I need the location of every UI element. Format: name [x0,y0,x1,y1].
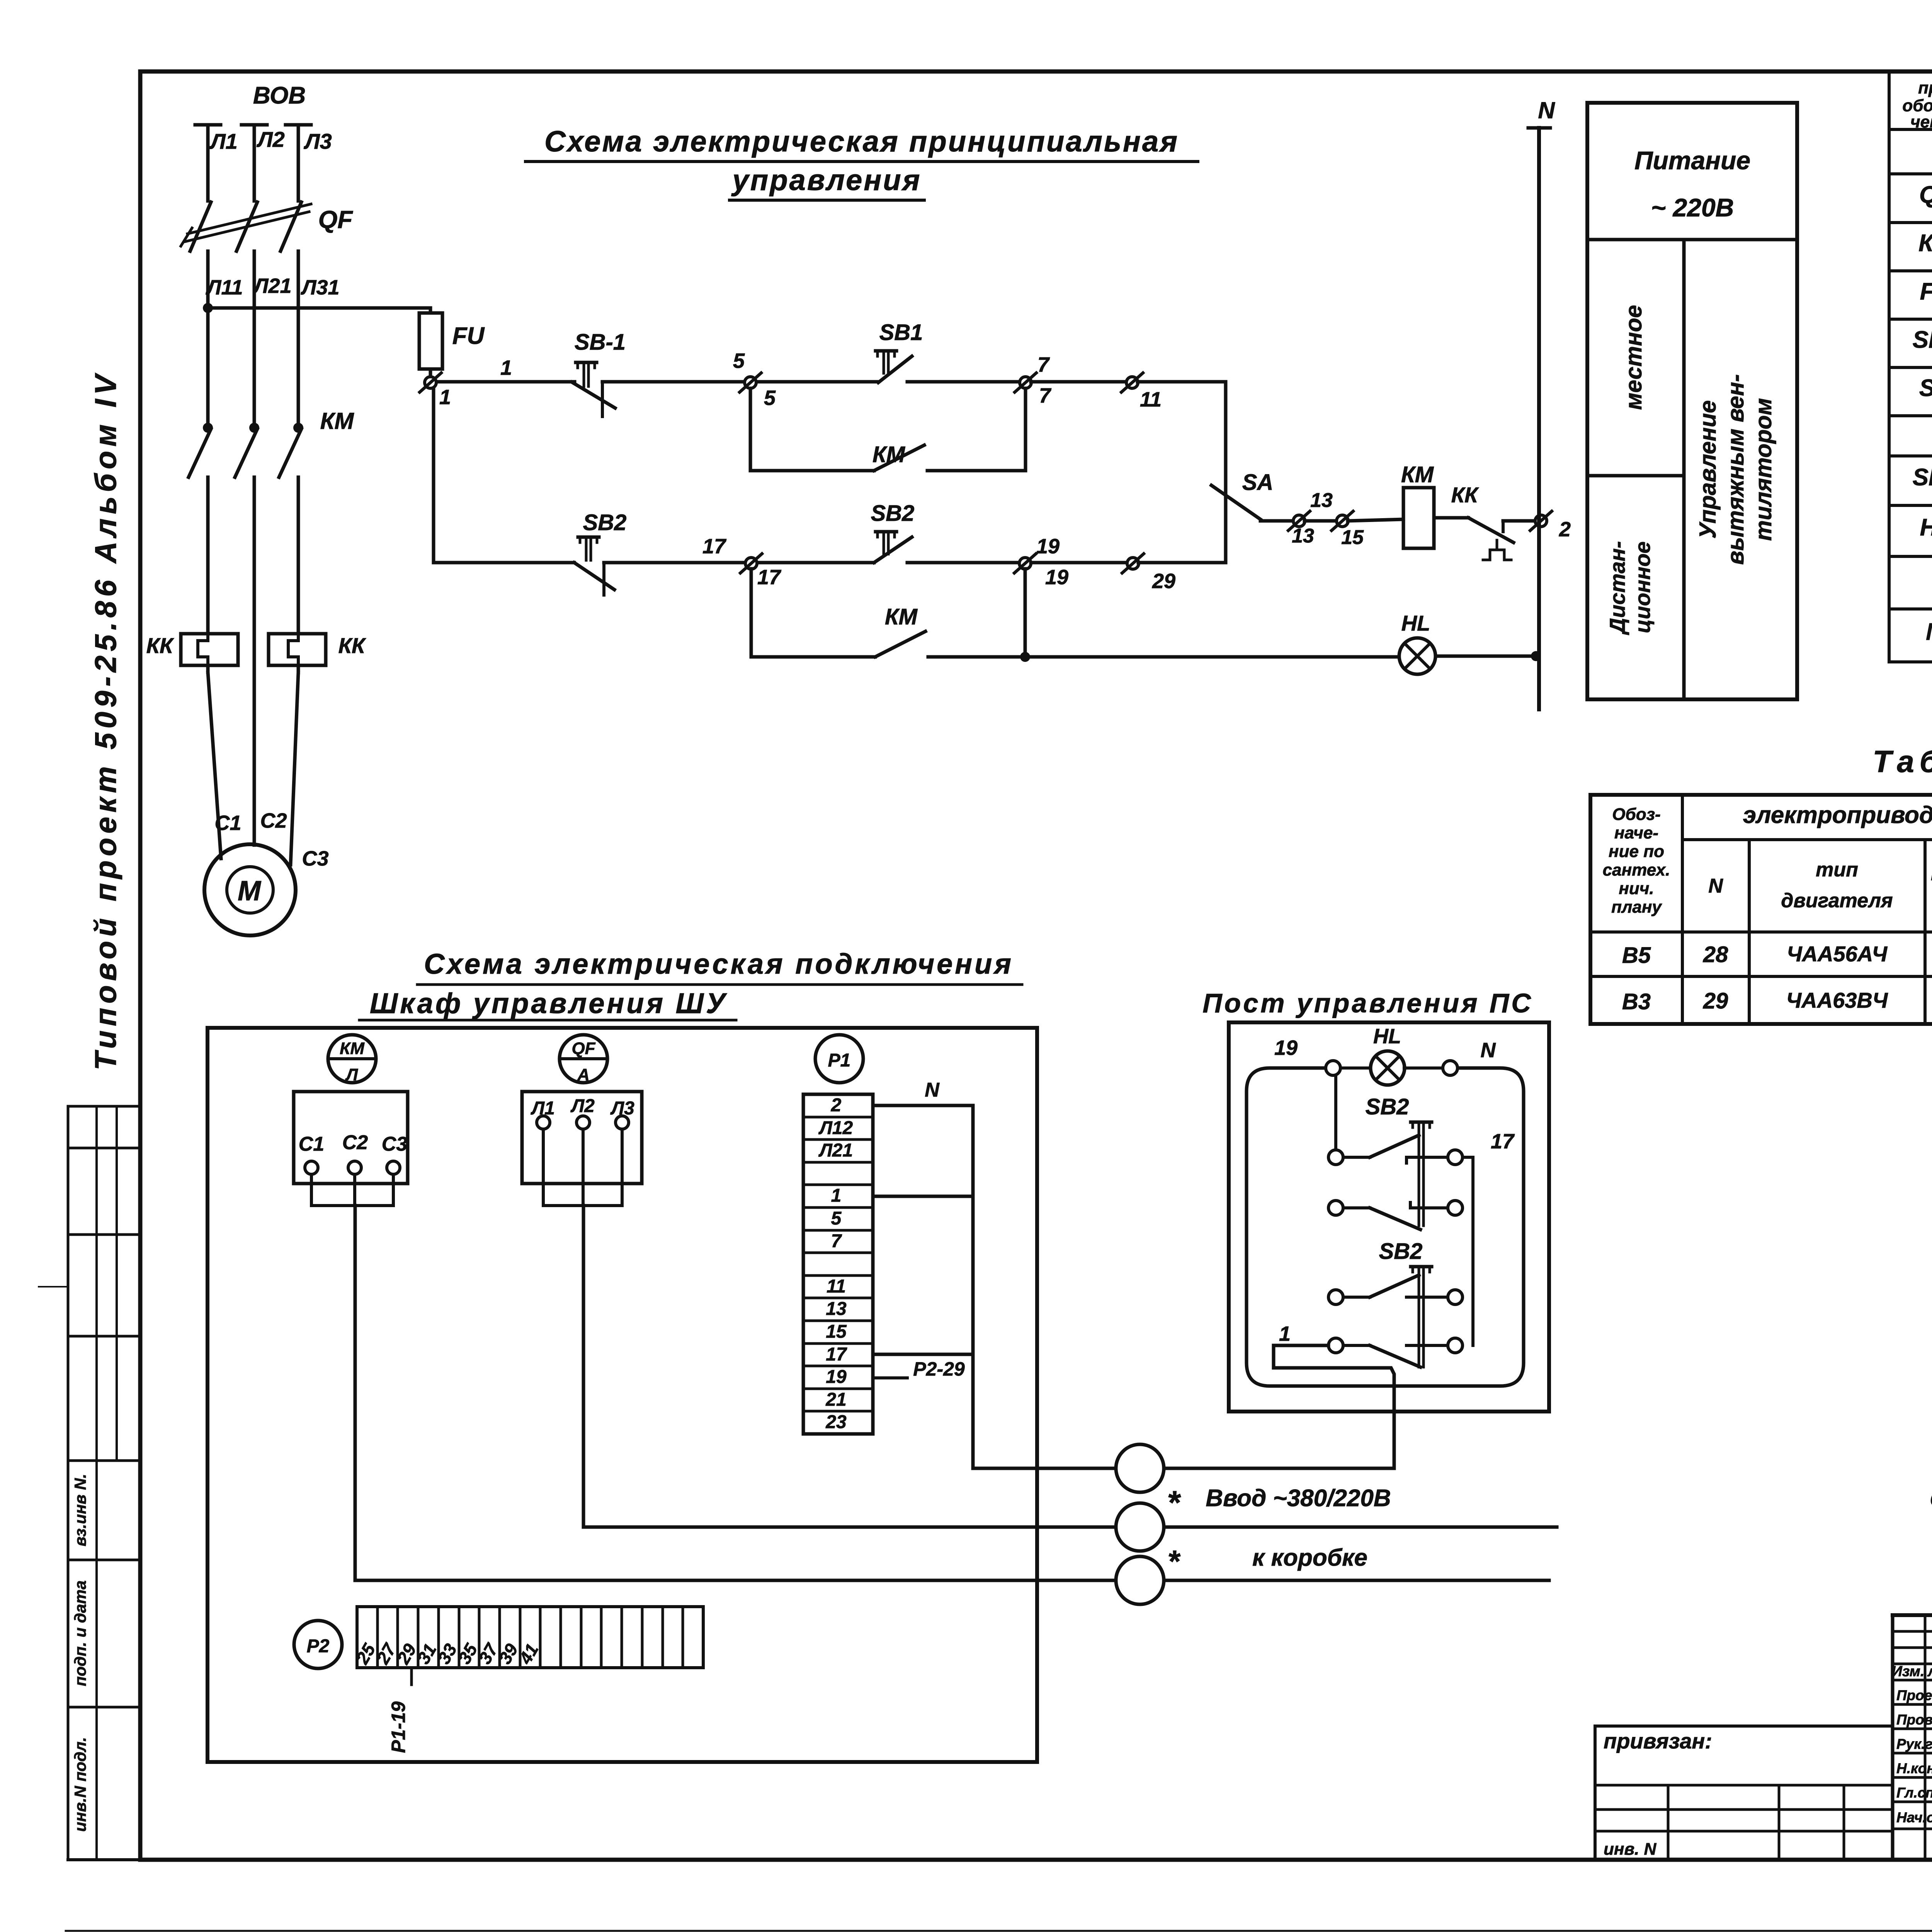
svg-text:Ввод ~380/220В: Ввод ~380/220В [1206,1485,1391,1512]
svg-text:1: 1 [1279,1322,1291,1345]
svg-text:17: 17 [1491,1130,1515,1153]
svg-text:Р1: Р1 [828,1050,851,1071]
svg-text:*: * [1168,1485,1181,1521]
svg-text:Изм.: Изм. [1892,1663,1925,1680]
svg-text:Л21: Л21 [818,1140,853,1161]
svg-text:2: 2 [831,1095,842,1116]
svg-text:Р2: Р2 [307,1636,330,1656]
svg-text:11: 11 [827,1276,846,1297]
svg-text:Гл.спец.: Гл.спец. [1896,1785,1932,1801]
svg-text:Пост управления ПС: Пост управления ПС [1202,988,1533,1018]
svg-text:QF: QF [571,1039,595,1058]
svg-text:N: N [925,1079,940,1101]
svg-text:1: 1 [831,1185,842,1206]
svg-text:КМ: КМ [340,1039,365,1058]
svg-text:инв. N: инв. N [1604,1840,1656,1859]
svg-text:привязан:: привязан: [1604,1729,1712,1753]
svg-text:к коробке: к коробке [1252,1544,1367,1571]
svg-text:Л2: Л2 [570,1096,595,1116]
svg-text:лист: лист [1927,1663,1932,1680]
svg-text:13: 13 [826,1299,847,1319]
svg-text:Р1-19: Р1-19 [388,1701,409,1753]
svg-text:21: 21 [825,1389,846,1410]
svg-text:5: 5 [831,1208,842,1229]
svg-text:Л12: Л12 [818,1118,853,1138]
svg-text:19: 19 [1274,1036,1298,1060]
svg-text:А: А [577,1065,590,1084]
svg-text:Рук.гр.: Рук.гр. [1896,1736,1932,1752]
svg-text:17: 17 [826,1344,847,1365]
svg-text:23: 23 [825,1412,847,1432]
svg-text:силового электрооборудования.: силового электрооборудования. [1930,1482,1932,1512]
svg-text:С2: С2 [342,1131,368,1154]
svg-text:Шкаф управления ШУ: Шкаф управления ШУ [370,987,728,1019]
svg-text:15: 15 [826,1321,847,1342]
svg-text:7: 7 [831,1231,842,1252]
svg-text:Нач.отд.: Нач.отд. [1896,1810,1932,1825]
svg-text:HL: HL [1373,1025,1401,1048]
svg-text:Н.контр.: Н.контр. [1896,1760,1932,1776]
svg-text:SB2: SB2 [1366,1094,1409,1119]
svg-text:С3: С3 [382,1133,408,1155]
svg-text:Проект: Проект [1896,1687,1932,1703]
svg-text:Л: Л [345,1065,358,1084]
svg-text:*: * [1168,1544,1181,1578]
svg-text:С1: С1 [299,1133,324,1155]
svg-text:Провер.: Провер. [1896,1712,1932,1728]
svg-text:SB2: SB2 [1379,1239,1423,1264]
svg-text:N: N [1481,1039,1496,1062]
svg-text:Схема электрическая подклю: Схема электрическая подключения [424,948,1014,980]
svg-text:Р2-29: Р2-29 [913,1358,965,1380]
svg-text:19: 19 [826,1367,847,1387]
